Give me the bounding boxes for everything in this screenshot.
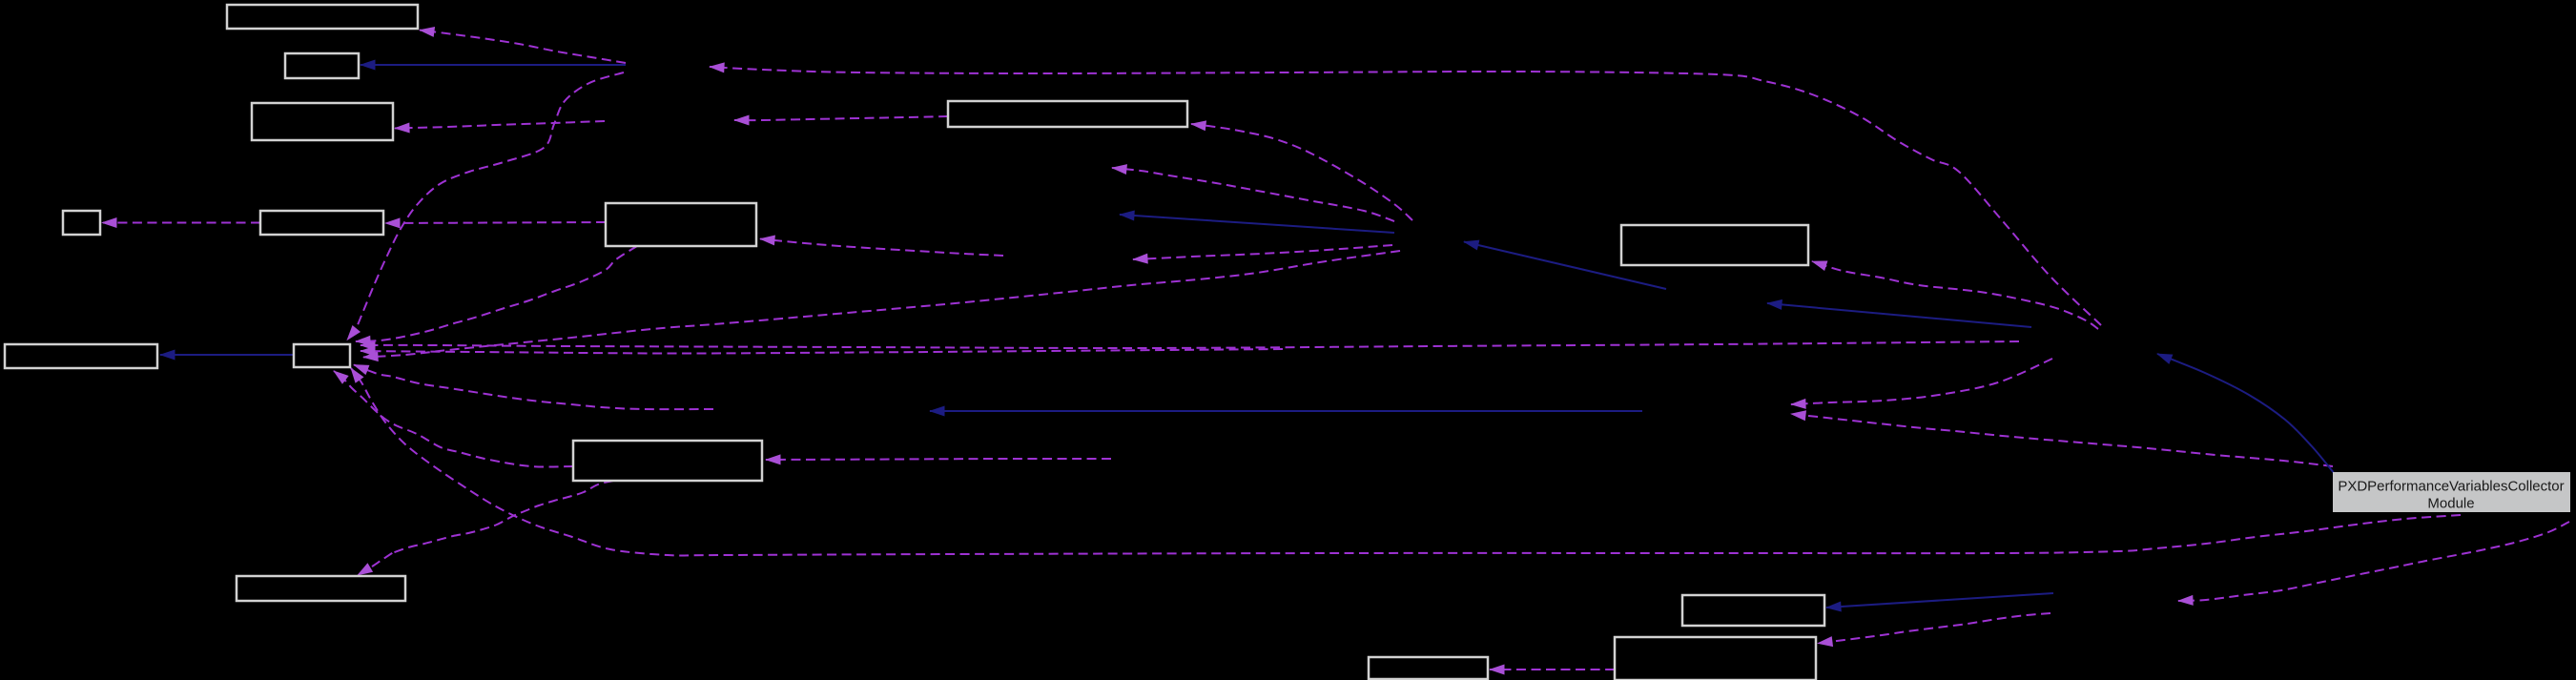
svg-text:PXDPerformanceVariablesCollect: PXDPerformanceVariablesCollector (2338, 479, 2564, 495)
svg-text:Module: Module (2427, 496, 2474, 512)
